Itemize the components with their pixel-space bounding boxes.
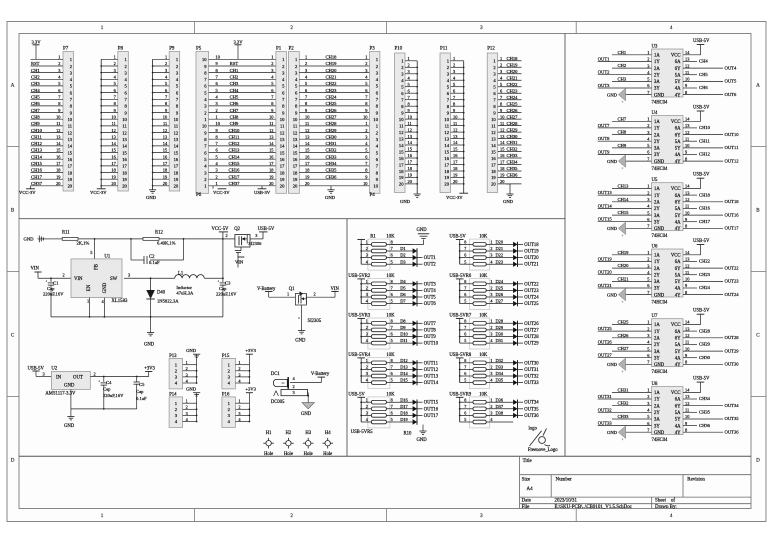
svg-text:6A: 6A bbox=[675, 127, 681, 132]
svg-text:13: 13 bbox=[174, 137, 179, 142]
svg-text:4: 4 bbox=[366, 338, 368, 343]
svg-text:GND: GND bbox=[103, 282, 108, 293]
svg-text:74HC04: 74HC04 bbox=[652, 101, 669, 106]
svg-text:2Y: 2Y bbox=[654, 73, 660, 78]
svg-text:OUT35: OUT35 bbox=[524, 407, 539, 412]
svg-text:CH6: CH6 bbox=[31, 101, 40, 106]
svg-text:OUT11: OUT11 bbox=[725, 145, 740, 150]
svg-text:CH37: CH37 bbox=[31, 181, 43, 186]
connector P10 bbox=[395, 47, 419, 193]
svg-text:11: 11 bbox=[685, 270, 689, 275]
power VCC-3V below P8 bbox=[90, 186, 107, 195]
svg-text:CH32: CH32 bbox=[326, 148, 338, 153]
svg-text:8: 8 bbox=[464, 318, 466, 323]
svg-text:20: 20 bbox=[491, 182, 496, 187]
svg-text:Hole: Hole bbox=[284, 452, 293, 457]
svg-text:OUT24: OUT24 bbox=[524, 296, 539, 301]
wire R11 to R12 with FB tap bbox=[78, 238, 143, 259]
svg-text:CH11: CH11 bbox=[699, 138, 711, 143]
connector P9 bbox=[152, 47, 180, 192]
svg-text:10: 10 bbox=[122, 117, 127, 122]
svg-text:11: 11 bbox=[453, 121, 457, 126]
svg-text:CH4: CH4 bbox=[31, 88, 40, 93]
svg-text:OUT17: OUT17 bbox=[725, 226, 740, 231]
svg-text:11: 11 bbox=[500, 121, 504, 126]
svg-text:CH21: CH21 bbox=[618, 276, 630, 281]
svg-text:D22: D22 bbox=[496, 253, 504, 258]
svg-text:2: 2 bbox=[647, 257, 649, 262]
svg-text:OUT2: OUT2 bbox=[424, 263, 437, 268]
svg-text:8: 8 bbox=[464, 358, 466, 363]
svg-text:2: 2 bbox=[365, 61, 367, 66]
svg-text:CH9: CH9 bbox=[230, 121, 239, 126]
svg-text:VCC: VCC bbox=[671, 391, 681, 396]
svg-text:3: 3 bbox=[490, 371, 492, 376]
svg-text:CH29: CH29 bbox=[326, 128, 338, 133]
svg-text:P12: P12 bbox=[487, 47, 495, 52]
svg-text:4Y: 4Y bbox=[675, 227, 681, 232]
svg-text:16: 16 bbox=[399, 156, 404, 161]
svg-text:D3: D3 bbox=[400, 259, 406, 264]
svg-text:2: 2 bbox=[114, 61, 116, 66]
svg-text:2Y: 2Y bbox=[654, 207, 660, 212]
capacitor C5 0.1uF bbox=[134, 377, 148, 409]
svg-text:4: 4 bbox=[366, 299, 368, 304]
svg-text:12: 12 bbox=[56, 128, 60, 133]
svg-text:Title: Title bbox=[523, 459, 533, 464]
svg-text:15: 15 bbox=[444, 149, 449, 154]
power VIN upper left bbox=[31, 267, 42, 279]
svg-text:CH5: CH5 bbox=[699, 72, 708, 77]
svg-text:12: 12 bbox=[444, 130, 449, 135]
svg-text:2: 2 bbox=[408, 63, 410, 68]
svg-text:Revision: Revision bbox=[687, 478, 705, 483]
svg-text:3.3V: 3.3V bbox=[233, 40, 243, 45]
svg-text:OUT8: OUT8 bbox=[424, 328, 437, 333]
svg-text:D: D bbox=[756, 458, 760, 464]
svg-text:20: 20 bbox=[444, 182, 449, 187]
svg-text:8: 8 bbox=[464, 397, 466, 402]
svg-text:CH34: CH34 bbox=[507, 160, 519, 165]
wire U1 EN loop bbox=[87, 292, 90, 317]
svg-text:14: 14 bbox=[122, 144, 127, 149]
inverter U3 74HC04 bbox=[598, 39, 737, 106]
svg-text:CH16: CH16 bbox=[229, 168, 241, 173]
svg-text:CH14: CH14 bbox=[229, 154, 241, 159]
svg-text:CH20: CH20 bbox=[507, 69, 519, 74]
svg-text:13: 13 bbox=[280, 137, 285, 142]
svg-text:CH9: CH9 bbox=[31, 121, 40, 126]
svg-text:CH25: CH25 bbox=[618, 320, 630, 325]
svg-text:OUT12: OUT12 bbox=[725, 158, 740, 163]
svg-text:GND: GND bbox=[186, 387, 197, 392]
svg-text:USB-5V: USB-5V bbox=[693, 309, 710, 314]
svg-text:D18: D18 bbox=[400, 411, 408, 416]
resistor network R2 10K bbox=[348, 274, 436, 310]
svg-text:1: 1 bbox=[366, 318, 368, 323]
svg-text:D28: D28 bbox=[496, 318, 504, 323]
power USB-3V below P1 bbox=[254, 186, 271, 195]
svg-text:FB: FB bbox=[95, 264, 100, 270]
regulator U1 XL1583 bbox=[71, 255, 128, 305]
svg-text:6: 6 bbox=[464, 332, 466, 337]
svg-text:Q2: Q2 bbox=[234, 227, 240, 232]
svg-text:OUT9: OUT9 bbox=[424, 335, 437, 340]
svg-text:CH30: CH30 bbox=[699, 355, 711, 360]
power VCC-5V bbox=[212, 227, 230, 239]
svg-text:CH22: CH22 bbox=[507, 82, 519, 87]
svg-text:CH21: CH21 bbox=[326, 75, 338, 80]
svg-text:CH13: CH13 bbox=[618, 184, 630, 189]
svg-text:5: 5 bbox=[464, 259, 466, 264]
svg-text:CH33: CH33 bbox=[326, 154, 338, 159]
svg-text:CH28: CH28 bbox=[699, 328, 711, 333]
transistor Q2 SI2306 bbox=[223, 227, 263, 268]
svg-text:SI2306: SI2306 bbox=[248, 241, 262, 246]
svg-text:11: 11 bbox=[68, 124, 72, 129]
connector P7 bbox=[31, 47, 74, 192]
svg-text:2: 2 bbox=[226, 233, 228, 238]
svg-text:12: 12 bbox=[280, 130, 285, 135]
svg-text:2: 2 bbox=[165, 61, 167, 66]
svg-text:CH18: CH18 bbox=[699, 192, 711, 197]
connector P8 bbox=[100, 47, 128, 192]
svg-text:GND: GND bbox=[503, 199, 514, 204]
svg-text:10: 10 bbox=[202, 57, 207, 62]
svg-text:OUT24: OUT24 bbox=[725, 292, 740, 297]
svg-text:U2: U2 bbox=[51, 367, 57, 372]
svg-text:GND: GND bbox=[417, 228, 428, 233]
svg-text:17: 17 bbox=[399, 162, 404, 167]
svg-text:CH24: CH24 bbox=[699, 285, 711, 290]
wire V-Battery to Q1 bbox=[269, 292, 295, 298]
svg-text:6Y: 6Y bbox=[675, 267, 681, 272]
svg-text:1: 1 bbox=[87, 299, 89, 304]
svg-text:CH16: CH16 bbox=[31, 168, 43, 173]
power VIN below Q2 bbox=[235, 257, 244, 265]
svg-text:USB-5V: USB-5V bbox=[693, 39, 710, 44]
svg-text:D29: D29 bbox=[496, 325, 504, 330]
connector P3 bbox=[370, 47, 380, 194]
svg-text:4: 4 bbox=[490, 417, 492, 422]
svg-text:OUT14: OUT14 bbox=[598, 203, 613, 208]
svg-text:3: 3 bbox=[490, 292, 492, 297]
svg-text:OUT7: OUT7 bbox=[424, 322, 437, 327]
svg-text:2: 2 bbox=[238, 405, 240, 410]
svg-text:B: B bbox=[11, 208, 15, 214]
capacitor C4 220uF 16V bbox=[99, 377, 125, 409]
svg-text:4A: 4A bbox=[675, 287, 681, 292]
wires P2 to P3 with CH18-CH36 net labels bbox=[299, 55, 369, 187]
svg-text:3: 3 bbox=[480, 513, 483, 519]
svg-text:15: 15 bbox=[491, 149, 496, 154]
svg-text:OUT11: OUT11 bbox=[424, 361, 439, 366]
svg-text:1: 1 bbox=[238, 399, 240, 404]
svg-text:OUT26: OUT26 bbox=[524, 322, 539, 327]
svg-text:OUT16: OUT16 bbox=[725, 212, 740, 217]
svg-text:18: 18 bbox=[122, 170, 127, 175]
svg-text:CH34: CH34 bbox=[699, 396, 711, 401]
svg-text:D30: D30 bbox=[496, 332, 504, 337]
svg-text:1: 1 bbox=[305, 55, 307, 60]
svg-text:Q1: Q1 bbox=[289, 287, 295, 292]
svg-text:5Y: 5Y bbox=[675, 214, 681, 219]
svg-text:CH25: CH25 bbox=[326, 101, 338, 106]
power +3V3 at U2 output bbox=[144, 367, 155, 377]
logo Freenove_Logo bbox=[528, 426, 558, 453]
svg-text:1: 1 bbox=[366, 358, 368, 363]
svg-text:5: 5 bbox=[464, 338, 466, 343]
svg-text:5Y: 5Y bbox=[675, 280, 681, 285]
svg-text:CH30: CH30 bbox=[326, 134, 338, 139]
ground at DC1 bbox=[301, 395, 314, 417]
svg-text:3: 3 bbox=[490, 332, 492, 337]
svg-text:11: 11 bbox=[280, 124, 285, 129]
svg-text:D40: D40 bbox=[157, 291, 166, 296]
svg-text:H2: H2 bbox=[286, 431, 292, 436]
transistor Q1 SI2305 bbox=[289, 287, 330, 331]
svg-text:10: 10 bbox=[491, 117, 496, 122]
svg-text:Hole: Hole bbox=[304, 452, 313, 457]
svg-text:2: 2 bbox=[216, 108, 218, 113]
svg-text:Drawn By:: Drawn By: bbox=[655, 505, 677, 510]
svg-text:10: 10 bbox=[202, 124, 207, 129]
svg-text:7: 7 bbox=[391, 286, 393, 291]
ground below resistor networks bbox=[417, 425, 428, 444]
svg-text:8: 8 bbox=[391, 358, 393, 363]
svg-text:10K: 10K bbox=[479, 353, 488, 358]
svg-text:OUT19: OUT19 bbox=[598, 256, 613, 261]
svg-text:OUT27: OUT27 bbox=[524, 328, 539, 333]
svg-text:7: 7 bbox=[464, 365, 466, 370]
svg-text:D31: D31 bbox=[496, 338, 504, 343]
svg-text:OUT23: OUT23 bbox=[725, 279, 740, 284]
svg-text:17: 17 bbox=[174, 164, 179, 169]
svg-text:2A: 2A bbox=[654, 67, 660, 72]
svg-text:11: 11 bbox=[685, 408, 689, 413]
ground below P10 bbox=[400, 184, 421, 204]
svg-text:19: 19 bbox=[280, 177, 285, 182]
svg-text:2: 2 bbox=[366, 404, 368, 409]
svg-text:2: 2 bbox=[63, 272, 65, 277]
svg-text:CH13: CH13 bbox=[229, 148, 241, 153]
svg-text:10K: 10K bbox=[479, 313, 488, 318]
svg-text:D26: D26 bbox=[496, 292, 504, 297]
svg-text:3: 3 bbox=[186, 411, 188, 416]
svg-text:12: 12 bbox=[685, 263, 689, 268]
svg-text:CH8: CH8 bbox=[31, 114, 40, 119]
ground rail under U1 bbox=[51, 316, 223, 318]
svg-text:3: 3 bbox=[366, 332, 368, 337]
inverter U5 74HC04 bbox=[598, 173, 740, 240]
svg-text:CH12: CH12 bbox=[229, 141, 241, 146]
svg-text:VCC-3V: VCC-3V bbox=[446, 195, 463, 200]
svg-text:12: 12 bbox=[163, 128, 167, 133]
svg-text:CH4: CH4 bbox=[699, 59, 708, 64]
svg-text:5A: 5A bbox=[675, 140, 681, 145]
svg-text:1: 1 bbox=[647, 250, 649, 255]
svg-text:16: 16 bbox=[122, 157, 127, 162]
svg-text:3: 3 bbox=[255, 233, 257, 238]
power V-Battery at DC1 bbox=[311, 372, 330, 383]
svg-text:CH6: CH6 bbox=[699, 85, 708, 90]
svg-text:logo: logo bbox=[529, 426, 538, 431]
svg-text:5: 5 bbox=[391, 299, 393, 304]
resistor network R9 10K bbox=[449, 353, 539, 389]
svg-text:13: 13 bbox=[399, 136, 404, 141]
svg-text:3: 3 bbox=[366, 292, 368, 297]
svg-text:CH10: CH10 bbox=[229, 128, 241, 133]
svg-text:VCC: VCC bbox=[671, 54, 681, 59]
svg-text:CH24: CH24 bbox=[326, 95, 338, 100]
svg-text:OUT19: OUT19 bbox=[524, 250, 539, 255]
svg-text:74HC04: 74HC04 bbox=[652, 438, 669, 443]
svg-text:CH19: CH19 bbox=[507, 63, 519, 68]
svg-text:12: 12 bbox=[399, 130, 404, 135]
svg-text:Inductor: Inductor bbox=[176, 285, 192, 290]
diode D40 1N5822 3A bbox=[146, 278, 179, 317]
wire L1 to output node bbox=[204, 239, 224, 282]
svg-text:12: 12 bbox=[491, 130, 496, 135]
svg-text:P5: P5 bbox=[196, 47, 202, 52]
svg-text:1: 1 bbox=[216, 114, 218, 119]
resistor network R4 10K bbox=[348, 353, 438, 389]
svg-text:3: 3 bbox=[238, 372, 240, 377]
svg-text:GND: GND bbox=[654, 160, 665, 165]
svg-text:7: 7 bbox=[464, 246, 466, 251]
svg-text:USB-5VR5: USB-5VR5 bbox=[351, 430, 374, 435]
svg-text:10: 10 bbox=[280, 117, 285, 122]
svg-text:OUT7: OUT7 bbox=[598, 123, 610, 128]
svg-text:2A: 2A bbox=[654, 201, 660, 206]
svg-text:CH31: CH31 bbox=[618, 387, 630, 392]
svg-text:CH32: CH32 bbox=[507, 147, 519, 152]
svg-text:14: 14 bbox=[399, 143, 404, 148]
svg-text:CH7: CH7 bbox=[618, 116, 627, 121]
svg-text:4Y: 4Y bbox=[675, 363, 681, 368]
svg-text:VCC-5V: VCC-5V bbox=[212, 227, 230, 232]
svg-text:P10: P10 bbox=[395, 47, 403, 52]
svg-text:P3: P3 bbox=[370, 47, 376, 52]
svg-text:14: 14 bbox=[293, 144, 298, 149]
svg-text:GND: GND bbox=[607, 362, 618, 367]
svg-text:3: 3 bbox=[366, 411, 368, 416]
svg-text:6A: 6A bbox=[675, 330, 681, 335]
svg-text:7: 7 bbox=[464, 404, 466, 409]
svg-text:14: 14 bbox=[444, 143, 449, 148]
section divider horizontal above title strip bbox=[19, 455, 751, 457]
svg-text:CH10: CH10 bbox=[699, 125, 711, 130]
svg-text:15: 15 bbox=[122, 150, 127, 155]
svg-text:7: 7 bbox=[464, 325, 466, 330]
svg-text:D5: D5 bbox=[400, 286, 406, 291]
svg-text:10K: 10K bbox=[479, 274, 488, 279]
svg-text:D16: D16 bbox=[400, 397, 408, 402]
svg-text:Hole: Hole bbox=[264, 452, 273, 457]
svg-text:CH8: CH8 bbox=[230, 114, 239, 119]
svg-text:5A: 5A bbox=[675, 273, 681, 278]
svg-text:CH33: CH33 bbox=[507, 153, 519, 158]
svg-text:5Y: 5Y bbox=[675, 147, 681, 152]
svg-text:1: 1 bbox=[186, 360, 188, 365]
title block bbox=[520, 456, 751, 510]
svg-text:16: 16 bbox=[293, 157, 298, 162]
svg-text:1Y: 1Y bbox=[654, 260, 660, 265]
svg-text:CH18: CH18 bbox=[507, 56, 519, 61]
svg-text:CH8: CH8 bbox=[618, 130, 627, 135]
svg-text:12: 12 bbox=[685, 197, 689, 202]
svg-text:2: 2 bbox=[490, 246, 492, 251]
svg-text:1A: 1A bbox=[654, 187, 660, 192]
svg-text:+3V3: +3V3 bbox=[144, 367, 155, 372]
connector P5 bbox=[196, 47, 209, 194]
svg-text:GND: GND bbox=[295, 339, 306, 344]
svg-text:D13: D13 bbox=[400, 365, 408, 370]
svg-text:File: File bbox=[522, 505, 530, 510]
svg-text:2: 2 bbox=[647, 57, 649, 62]
svg-text:CH26: CH26 bbox=[326, 108, 338, 113]
svg-text:2: 2 bbox=[305, 61, 307, 66]
connector P12 bbox=[487, 47, 521, 193]
svg-text:OUT4: OUT4 bbox=[725, 65, 737, 70]
svg-text:D35: D35 bbox=[496, 378, 504, 383]
svg-text:D33: D33 bbox=[496, 365, 504, 370]
svg-text:12: 12 bbox=[685, 401, 689, 406]
svg-text:CH7: CH7 bbox=[230, 108, 239, 113]
svg-text:11: 11 bbox=[174, 124, 179, 129]
svg-text:OUT34: OUT34 bbox=[725, 403, 740, 408]
inverter U4 74HC04 bbox=[598, 106, 740, 173]
power 3.3V at P7 pin 1 bbox=[31, 40, 41, 60]
svg-text:2Y: 2Y bbox=[654, 411, 660, 416]
connector DC1 DC005 bbox=[271, 372, 321, 405]
svg-text:6: 6 bbox=[464, 411, 466, 416]
svg-text:13: 13 bbox=[122, 137, 127, 142]
svg-text:CH31: CH31 bbox=[507, 140, 519, 145]
svg-text:CH15: CH15 bbox=[618, 210, 630, 215]
svg-text:CH1: CH1 bbox=[230, 68, 239, 73]
svg-text:1A: 1A bbox=[654, 120, 660, 125]
svg-text:VIN: VIN bbox=[74, 277, 83, 282]
svg-text:OUT10: OUT10 bbox=[725, 132, 740, 137]
svg-text:1A: 1A bbox=[654, 254, 660, 259]
svg-text:1: 1 bbox=[647, 117, 649, 122]
svg-text:7: 7 bbox=[391, 246, 393, 251]
svg-text:15: 15 bbox=[174, 150, 179, 155]
svg-text:GND: GND bbox=[186, 348, 197, 353]
svg-text:2: 2 bbox=[490, 404, 492, 409]
svg-text:OUT10: OUT10 bbox=[424, 342, 439, 347]
svg-text:OUT35: OUT35 bbox=[725, 416, 740, 421]
svg-text:11: 11 bbox=[685, 136, 689, 141]
svg-text:20: 20 bbox=[174, 184, 179, 189]
svg-text:1: 1 bbox=[271, 55, 273, 60]
svg-text:6: 6 bbox=[391, 411, 393, 416]
svg-text:10: 10 bbox=[373, 184, 378, 189]
svg-text:10: 10 bbox=[444, 117, 449, 122]
svg-text:CH32: CH32 bbox=[618, 401, 630, 406]
wire GND to R11 bbox=[47, 238, 62, 240]
svg-text:CH5: CH5 bbox=[230, 95, 239, 100]
svg-text:1: 1 bbox=[365, 121, 367, 126]
svg-text:OUT26: OUT26 bbox=[598, 339, 613, 344]
svg-text:CH10: CH10 bbox=[31, 128, 43, 133]
connector P16 bbox=[222, 387, 257, 428]
svg-text:C: C bbox=[756, 333, 760, 339]
svg-text:2: 2 bbox=[271, 61, 273, 66]
ground below P2-P3 wires bbox=[325, 186, 336, 200]
svg-text:2A: 2A bbox=[654, 404, 660, 409]
